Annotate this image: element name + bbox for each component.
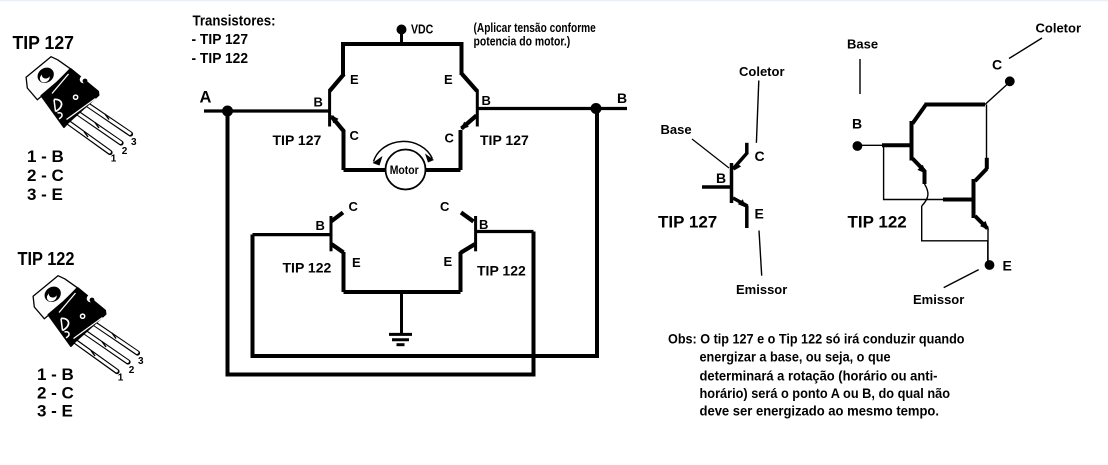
svg-text:determinará a rotação (horário: determinará a rotação (horário ou anti- [700,368,938,384]
svg-text:E: E [444,254,453,269]
svg-text:3 - E: 3 - E [37,402,73,421]
svg-text:TIP 122: TIP 122 [848,213,907,232]
svg-text:E: E [444,72,453,87]
svg-text:Base: Base [661,122,692,137]
svg-text:B: B [852,116,862,132]
svg-text:2 - C: 2 - C [27,166,64,185]
svg-text:B: B [716,170,726,186]
svg-text:A: A [200,89,212,107]
svg-text:E: E [352,255,361,270]
svg-text:TIP 122: TIP 122 [283,260,332,276]
svg-text:Coletor: Coletor [739,64,785,79]
svg-text:TIP 127: TIP 127 [273,132,322,148]
svg-text:Coletor: Coletor [1036,21,1082,36]
svg-text:1 - B: 1 - B [37,365,74,384]
svg-text:E: E [755,206,764,222]
svg-text:TIP 127: TIP 127 [13,33,75,53]
svg-text:2 - C: 2 - C [37,384,74,403]
svg-text:3 - E: 3 - E [27,185,63,204]
svg-text:E: E [350,72,359,87]
svg-text:C: C [350,128,360,143]
svg-text:Base: Base [847,37,878,52]
svg-text:E: E [1003,258,1012,274]
svg-text:Emissor: Emissor [736,282,787,297]
svg-text:B: B [482,93,491,108]
svg-text:C: C [440,199,450,214]
svg-text:TIP 127: TIP 127 [658,213,717,232]
svg-text:Motor: Motor [390,163,419,177]
svg-text:energizar a base, ou seja, o q: energizar a base, ou seja, o que [700,349,891,365]
svg-text:TIP 127: TIP 127 [480,132,529,148]
svg-text:Obs: O tip 127 e o Tip 122: Obs: O tip 127 e o Tip 122 só irá conduz… [668,331,965,347]
svg-text:TIP 122: TIP 122 [18,249,75,269]
svg-text:C: C [349,199,359,214]
svg-text:deve ser energizado ao mesmo t: deve ser energizado ao mesmo tempo. [700,403,940,419]
svg-text:C: C [445,131,455,146]
svg-text:B: B [617,90,627,106]
svg-text:C: C [992,57,1002,73]
svg-text:Emissor: Emissor [913,292,964,307]
svg-text:TIP 122: TIP 122 [477,263,526,279]
svg-text:B: B [479,217,488,232]
svg-text:- TIP 127: - TIP 127 [192,31,249,48]
svg-text:1 - B: 1 - B [27,147,64,166]
svg-text:(Aplicar tensão conforme: (Aplicar tensão conforme [474,21,596,35]
svg-text:Transistores:: Transistores: [193,13,276,30]
svg-text:horário) será o ponto A ou B,: horário) será o ponto A ou B, do qual nã… [700,385,951,401]
svg-text:C: C [755,148,765,164]
svg-text:- TIP 122: - TIP 122 [192,50,249,67]
svg-text:B: B [316,218,325,233]
svg-text:potencia do motor.): potencia do motor.) [474,35,571,49]
svg-text:VDC: VDC [411,21,434,36]
svg-text:B: B [314,95,323,110]
